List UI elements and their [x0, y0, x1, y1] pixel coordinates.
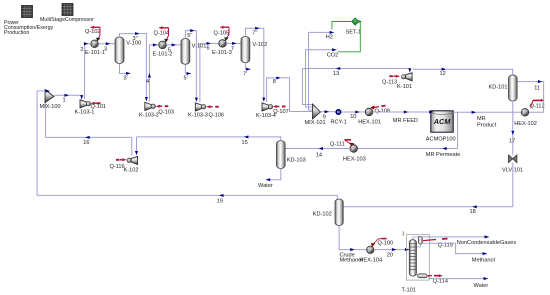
svg-text:7'': 7'' — [252, 30, 257, 36]
svg-text:H2: H2 — [326, 35, 333, 41]
svg-text:MIX-101: MIX-101 — [305, 120, 326, 126]
svg-text:CO2: CO2 — [327, 53, 339, 59]
svg-text:13: 13 — [333, 71, 339, 77]
svg-text:Product: Product — [477, 122, 497, 128]
svg-text:11: 11 — [534, 85, 540, 91]
svg-text:20: 20 — [387, 252, 393, 258]
svg-text:HEX-103: HEX-103 — [343, 156, 366, 162]
svg-text:NonCondensableGases: NonCondensableGases — [457, 240, 517, 246]
svg-text:K-103-2: K-103-2 — [139, 113, 159, 119]
svg-text:14: 14 — [316, 152, 322, 158]
svg-text:5: 5 — [168, 47, 171, 53]
svg-text:HEX-104: HEX-104 — [359, 258, 382, 264]
svg-text:15: 15 — [242, 140, 248, 146]
svg-text:K-101: K-101 — [397, 84, 412, 90]
svg-text:16: 16 — [83, 140, 89, 146]
svg-text:19: 19 — [217, 198, 223, 204]
svg-text:Q-107: Q-107 — [273, 109, 289, 115]
svg-text:Q-116: Q-116 — [110, 164, 125, 170]
svg-text:V-101: V-101 — [192, 44, 207, 50]
svg-text:Q-114: Q-114 — [433, 278, 448, 284]
svg-text:2: 2 — [80, 47, 83, 53]
svg-text:K-103-1: K-103-1 — [75, 109, 95, 115]
svg-text:Q-103: Q-103 — [158, 110, 174, 116]
svg-text:3'': 3'' — [133, 36, 138, 42]
svg-text:ACMOP100: ACMOP100 — [426, 136, 456, 142]
svg-text:Q-102: Q-102 — [85, 29, 101, 35]
svg-text:ACM: ACM — [433, 117, 452, 126]
svg-text:Q-113: Q-113 — [382, 79, 397, 85]
svg-text:HEX-101: HEX-101 — [358, 119, 381, 125]
svg-text:Q-104: Q-104 — [154, 30, 170, 36]
svg-text:V-102: V-102 — [252, 42, 267, 48]
svg-text:KD-101: KD-101 — [489, 85, 508, 91]
svg-text:Methanol: Methanol — [472, 257, 495, 263]
svg-text:9: 9 — [323, 114, 326, 120]
svg-text:Q-111: Q-111 — [330, 141, 345, 147]
svg-text:MR: MR — [477, 116, 486, 122]
svg-text:K-103-3: K-103-3 — [188, 113, 208, 119]
svg-text:E-101-1: E-101-1 — [85, 50, 105, 56]
svg-text:Water: Water — [474, 283, 489, 289]
svg-text:5': 5' — [184, 76, 188, 82]
svg-text:8: 8 — [273, 79, 276, 85]
svg-text:E-101-3: E-101-3 — [212, 50, 232, 56]
svg-text:7: 7 — [231, 46, 234, 52]
svg-text:KD-102: KD-102 — [313, 212, 332, 218]
svg-text:6: 6 — [207, 45, 210, 51]
svg-text:Production: Production — [4, 30, 29, 36]
svg-text:SET-1: SET-1 — [346, 29, 362, 35]
svg-text:1: 1 — [63, 98, 66, 104]
svg-text:7': 7' — [243, 71, 247, 77]
svg-text:MIX-100: MIX-100 — [40, 104, 61, 110]
svg-text:MR FEED: MR FEED — [393, 118, 418, 124]
svg-text:18: 18 — [470, 209, 476, 215]
svg-text:Q-105: Q-105 — [214, 30, 230, 36]
svg-text:3: 3 — [104, 46, 107, 52]
svg-text:MR Permeate: MR Permeate — [426, 152, 461, 158]
svg-text:MultiStageCompressor: MultiStageCompressor — [40, 17, 94, 23]
svg-text:10: 10 — [350, 114, 356, 120]
svg-text:Q-101: Q-101 — [91, 104, 107, 110]
svg-text:K-102: K-102 — [124, 168, 139, 174]
svg-text:3': 3' — [124, 76, 128, 82]
svg-text:Q-100: Q-100 — [378, 240, 394, 246]
svg-text:HEX-102: HEX-102 — [514, 121, 537, 127]
svg-text:17: 17 — [509, 138, 515, 144]
svg-text:Water: Water — [258, 183, 273, 189]
svg-text:Q-106: Q-106 — [209, 113, 225, 119]
svg-text:5'': 5'' — [187, 33, 192, 39]
svg-text:RCY-1: RCY-1 — [331, 119, 347, 125]
svg-text:12: 12 — [440, 71, 446, 77]
svg-text:KD-103: KD-103 — [287, 157, 306, 163]
svg-text:T-101: T-101 — [402, 287, 416, 293]
svg-text:4: 4 — [146, 79, 149, 85]
